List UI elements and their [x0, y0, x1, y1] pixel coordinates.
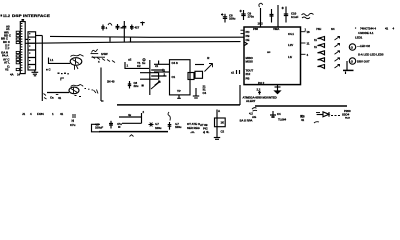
Q2 emitter marks: [75, 89, 99, 97]
svg-text:S4: S4: [331, 27, 335, 31]
svg-text:16: 16: [307, 30, 311, 34]
svg-text:100u: 100u: [229, 17, 236, 21]
svg-text:427: 427: [135, 26, 140, 30]
svg-text:4L: 4L: [206, 130, 210, 134]
ground under U2 right: [193, 88, 199, 98]
resistor R2 1K: [215, 109, 226, 138]
IC U1 ATmega: [244, 27, 301, 85]
LED D1: [318, 37, 340, 41]
junction tick between buses: [110, 37, 131, 42]
crystal marks near U1: [231, 70, 240, 75]
bottom text block: [187, 122, 205, 134]
diode arrow: [155, 81, 161, 85]
ground arrow below U1: [275, 85, 281, 94]
wire to Q1: [53, 62, 70, 64]
svg-text:41: 41: [60, 112, 64, 116]
LED column labels: [314, 38, 317, 49]
svg-text:C4 S: C4 S: [172, 61, 178, 65]
LED D5: [318, 65, 340, 69]
wire hook to V2: [36, 35, 43, 37]
svg-text:11.2: 11.2: [3, 14, 10, 18]
LED D3: [318, 51, 340, 55]
resistor R1 1/4W: [92, 52, 116, 63]
svg-text:ALERT: ALERT: [246, 99, 256, 103]
svg-text:14: 14: [17, 73, 21, 77]
svg-text:C1: C1: [172, 75, 176, 79]
bracket cap left: [92, 124, 101, 132]
svg-text:41: 41: [58, 96, 62, 100]
top capacitor C9: [240, 10, 255, 20]
ground under U2: [177, 95, 181, 98]
svg-text:41: 41: [385, 27, 389, 31]
annotation squiggle top right: [302, 13, 314, 18]
svg-text:4x: 4x: [128, 113, 132, 117]
J1 pin labels: [1, 25, 12, 72]
scan speckle top-left: [1, 15, 3, 17]
svg-text:..m.: ..m.: [190, 130, 195, 134]
op-amp U2 box: [170, 60, 195, 95]
buzzer G2: [349, 58, 355, 64]
junction X: [149, 123, 154, 127]
LED D4: [318, 58, 340, 62]
wire and ground right: [343, 61, 354, 74]
annotation tilde: [314, 122, 319, 123]
svg-text:L1: L1: [50, 58, 54, 62]
wire to U1 top 2: [277, 5, 279, 27]
svg-text:22u: 22u: [134, 84, 139, 88]
svg-text:41: 41: [301, 118, 305, 122]
rail bottom: [99, 131, 168, 133]
svg-text:VMA: VMA: [273, 27, 280, 31]
capacitor C22u: [128, 81, 139, 89]
svg-text:LED1: LED1: [355, 36, 363, 40]
title: [3, 14, 51, 18]
svg-text:2N 40: 2N 40: [107, 80, 115, 84]
bottom text mid2: [175, 122, 182, 129]
svg-text:170u: 170u: [248, 15, 255, 19]
transistor Q2: [69, 85, 83, 94]
buffer column boxes: [25, 32, 36, 70]
ground under V1: [32, 72, 39, 76]
U2 left pins: [142, 59, 170, 72]
svg-text:CE: CE: [246, 38, 250, 42]
svg-text:100u: 100u: [155, 126, 162, 130]
LED D2: [318, 44, 340, 48]
svg-text:C2: C2: [137, 64, 141, 68]
svg-text:FX34: FX34: [37, 112, 44, 116]
header H mark: [70, 115, 76, 127]
wire bus B: [26, 42, 241, 44]
bottom right text cluster: [342, 109, 351, 119]
svg-text:0.1uF: 0.1uF: [291, 15, 299, 19]
svg-text:212: 212: [246, 72, 251, 76]
wire rail right: [255, 105, 347, 107]
wire to U1 top: [260, 8, 262, 27]
diode D6: [317, 112, 340, 117]
svg-text:S-A LED LED LED3: S-A LED LED LED3: [358, 52, 384, 56]
transistor Q1: [70, 55, 83, 70]
bottom text mid: [155, 122, 162, 130]
svg-text:C4.1: C4.1: [288, 32, 294, 36]
part number row right: [305, 27, 395, 32]
ground under R2: [214, 138, 220, 140]
svg-text:C2: C2: [221, 130, 225, 134]
svg-text:100uF: 100uF: [95, 126, 103, 130]
marks near V2 bottom: [44, 94, 47, 100]
capacitor C12 label: [117, 122, 122, 128]
svg-text:4 MODE 4.1: 4 MODE 4.1: [358, 31, 374, 35]
svg-text:11: 11: [307, 42, 310, 46]
wire vertical V2: [41, 36, 43, 102]
annotation 2V: [91, 49, 99, 54]
connector J1: [20, 19, 25, 74]
svg-text:4: 4: [203, 130, 205, 134]
J1 pin stub boxes: [16, 31, 19, 70]
capacitor C13: [168, 112, 172, 130]
wire stub: [316, 112, 320, 114]
label ATMEGA mounted alert: [243, 95, 277, 103]
connector L bracket: [49, 58, 54, 64]
U1 left pin stubs: [241, 30, 245, 33]
wire pair bottom: [119, 110, 145, 123]
svg-text:L2V: L2V: [288, 43, 293, 47]
svg-text:—LED O2: —LED O2: [357, 44, 370, 48]
svg-text:C4: C4: [277, 112, 281, 116]
svg-text:2.2: 2.2: [257, 88, 261, 92]
capacitor row above bus: [101, 21, 144, 42]
wire vertical x150: [149, 60, 151, 95]
small box left of U1: [195, 71, 203, 78]
label AT89 PIC: [200, 123, 210, 134]
U1 right pin stubs: [301, 32, 306, 55]
svg-text:DRV OUT: DRV OUT: [357, 59, 370, 63]
svg-text:P.6 2: P.6 2: [258, 81, 265, 85]
top capacitor C10: [282, 7, 299, 23]
wire bus A: [50, 35, 244, 38]
svg-text:TL064: TL064: [278, 118, 287, 122]
capacitor C11: [95, 121, 113, 130]
svg-text:J1: J1: [22, 112, 26, 116]
svg-text:1/4W: 1/4W: [101, 52, 108, 56]
buzzer G1: [349, 44, 355, 50]
C5 label: [301, 115, 305, 122]
svg-text:x1: x1: [231, 71, 235, 75]
wire corner to crystal area: [125, 58, 149, 69]
svg-text:100u: 100u: [175, 125, 182, 129]
crystal Y1: [151, 69, 166, 77]
capacitor C14 with ground: [270, 111, 281, 118]
wire vertical V1: [34, 70, 36, 72]
svg-text:L1/: L1/: [288, 55, 292, 59]
right labels: [355, 31, 384, 64]
svg-text:74H: 74H: [316, 27, 321, 31]
svg-text:11: 11: [314, 38, 317, 42]
bracket right of Q2: [101, 68, 104, 102]
wire vertical x240: [239, 85, 241, 105]
wire to Q2: [47, 92, 69, 94]
crystal Y1 label: [137, 61, 141, 68]
svg-text:P66: P66: [253, 27, 258, 31]
svg-text:Ca: Ca: [50, 96, 54, 100]
corner mark: [61, 78, 64, 81]
svg-text:MOSI: MOSI: [246, 60, 253, 64]
svg-text:TP: TP: [177, 89, 181, 93]
svg-text:V2: V2: [5, 68, 9, 72]
left mid label row: [10, 73, 21, 77]
svg-text:C4: C4: [203, 91, 207, 95]
svg-text:1C2: 1C2: [258, 22, 264, 26]
label Ca: [50, 96, 62, 101]
annotation squiggle top: [259, 3, 263, 7]
diagonal arrow: [151, 82, 160, 90]
svg-text:SA S RPA: SA S RPA: [240, 119, 254, 123]
svg-text:11: 11: [314, 45, 317, 49]
programming arrow into U1: [195, 56, 213, 72]
svg-text:PB: PB: [246, 77, 250, 81]
wire vertical x271: [271, 9, 273, 23]
Q1 part label dots: [58, 73, 69, 75]
bottom text left row: [22, 112, 64, 116]
svg-text:m.n: m.n: [345, 115, 350, 119]
pin text column: [203, 85, 207, 95]
svg-text:C7u: C7u: [70, 123, 76, 127]
svg-text:u2: u2: [128, 58, 132, 62]
svg-text:1u: 1u: [142, 61, 146, 65]
bottom right annotation: [240, 108, 258, 123]
top capacitor C8: [221, 13, 236, 22]
svg-text:uc: uc: [267, 50, 271, 54]
input open box: [140, 73, 159, 80]
svg-text:DSP INTERFACE: DSP INTERFACE: [12, 14, 51, 18]
svg-text:47u: 47u: [117, 122, 122, 126]
wire rail left: [117, 104, 240, 106]
